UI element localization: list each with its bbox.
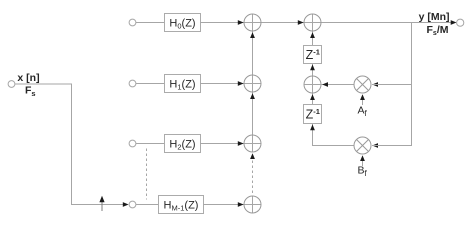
multiplier Bf [354, 137, 371, 154]
feedback wire from output to Bf [372, 23, 412, 146]
wire input to bottom row [15, 84, 123, 205]
output arrowhead [451, 20, 457, 25]
arrowhead into S4 left [238, 202, 244, 207]
wire Af multiplier to adder S6 [304, 84, 354, 86]
dashed ellipsis wire between row3 and row4 terminals [146, 149, 148, 200]
commutator arrow stem [101, 202, 103, 211]
wire HM-1 to adder S4 [204, 204, 262, 206]
arrowhead up into Z1 bottom [310, 65, 315, 71]
wire H1 to adder S2 [201, 83, 262, 85]
adder S2 [244, 75, 261, 92]
arrowhead into S6 right [322, 82, 328, 87]
arrowhead up into S3 bottom [250, 153, 255, 159]
multiplier Af [354, 76, 371, 93]
commutator arrowhead [99, 196, 104, 202]
vertical wire through adders S1-S3 [252, 14, 254, 152]
feedback branch wire to Af [372, 84, 412, 86]
output terminal circle [457, 19, 464, 26]
svg-text:H2(Z): H2(Z) [169, 139, 195, 152]
arrowhead up into S1 bottom [250, 32, 255, 38]
wire H2 to adder S3 [201, 143, 262, 145]
dashed wire S4 to S3 [252, 156, 254, 195]
adder S6 [304, 76, 321, 93]
adder S5 [304, 14, 321, 31]
arrowhead into S2 left [238, 81, 244, 86]
svg-text:H1(Z): H1(Z) [169, 79, 195, 92]
wire from Bf multiplier up into delay Z2 [313, 124, 355, 146]
arrowhead into S1 left [238, 20, 244, 25]
filter box H0(Z) [165, 14, 201, 32]
terminal circle row2 [129, 80, 136, 87]
adder S4 [244, 196, 261, 213]
arrowhead up into S5 bottom [310, 32, 315, 38]
arrowhead into Af right [372, 82, 378, 87]
vertical wire through adder S4 [252, 196, 254, 213]
filter box HM-1(Z) [159, 196, 204, 214]
wire row4 terminal to HM-1 [136, 204, 159, 206]
wire row2 terminal to H1 [136, 83, 165, 85]
arrowhead up into S6 bottom [310, 94, 315, 100]
arrowhead into S3 left [238, 141, 244, 146]
Bf coefficient stem [362, 160, 364, 166]
delay box Z2 [304, 105, 322, 124]
arrowhead into row4 terminal [123, 202, 129, 207]
adder S3 [244, 135, 261, 152]
svg-text:y [Mn]: y [Mn] [419, 11, 450, 23]
svg-text:H0(Z): H0(Z) [169, 18, 195, 31]
wire row3 terminal to H2 [136, 143, 165, 145]
terminal circle row3 [129, 140, 136, 147]
arrowhead into S5 left [298, 20, 304, 25]
arrowhead up into S2 bottom [250, 93, 255, 99]
arrowhead up into Z2 bottom [310, 125, 315, 131]
filter box H1(Z) [165, 75, 201, 93]
arrowhead up into Bf bottom [360, 155, 365, 161]
arrowhead up into Af bottom [360, 94, 365, 100]
vertical wire S5 to delay Z1 [312, 14, 314, 46]
input terminal circle [8, 81, 15, 88]
adder S1 [244, 14, 261, 31]
wire H0 to output row (through adders S1 and S5) [201, 22, 452, 24]
svg-text:Fs/M: Fs/M [427, 24, 449, 37]
terminal circle row4 [129, 201, 136, 208]
wire row1 terminal to H0 [136, 22, 165, 24]
vertical wire delay Z1 through adder S6 to delay Z2 [312, 64, 314, 105]
filter box H2(Z) [165, 135, 201, 153]
terminal circle row1 [129, 19, 136, 26]
delay box Z1 [304, 46, 322, 64]
svg-text:x [n]: x [n] [17, 72, 39, 84]
Af coefficient stem [362, 99, 364, 105]
arrowhead into Bf right [372, 143, 378, 148]
